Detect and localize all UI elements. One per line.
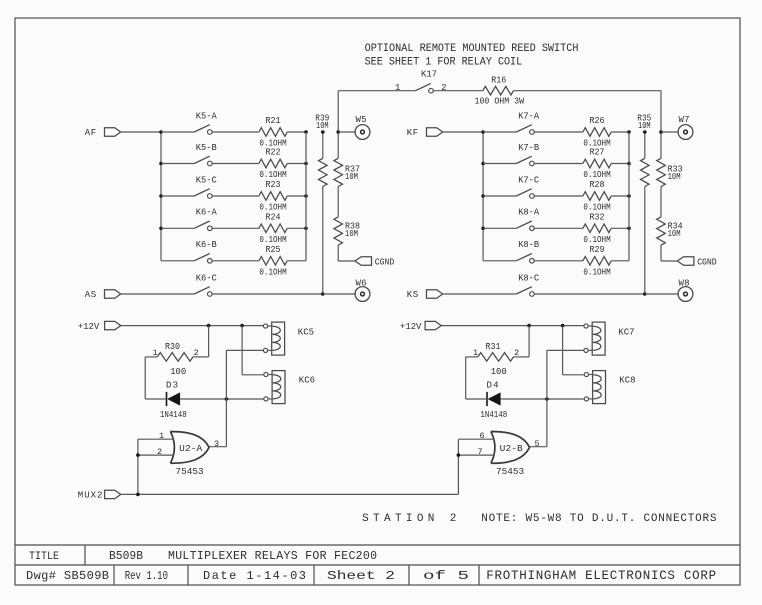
input tag AS	[85, 290, 121, 300]
junction dot input2	[136, 453, 140, 457]
wire row4 bus to switch	[161, 227, 194, 229]
wire row1 bus to switch	[483, 131, 516, 133]
svg-text:Sheet 2: Sheet 2	[327, 569, 395, 583]
wire R16 to right vertical	[514, 90, 662, 92]
ground tag CGND	[355, 257, 394, 268]
wire gate input 2	[458, 454, 494, 456]
wire switch to resistor row4	[535, 227, 583, 229]
wire bus to diode	[145, 398, 166, 400]
resistor R38	[334, 187, 360, 246]
svg-text:W7: W7	[679, 115, 690, 125]
svg-text:K5-A: K5-A	[196, 111, 218, 121]
switch K8-C	[516, 273, 539, 296]
wire R30 left bus down	[145, 356, 157, 358]
power tag +12V	[105, 321, 121, 329]
wire R31 left bus down	[466, 356, 478, 358]
svg-text:75453: 75453	[176, 466, 204, 477]
input tag KF	[407, 128, 443, 138]
svg-text:+12V: +12V	[400, 322, 422, 332]
svg-text:R21: R21	[266, 116, 281, 126]
connector W8	[678, 279, 693, 302]
wire KC5 bottom to vertical	[226, 349, 263, 351]
relay coil KC8	[584, 371, 635, 404]
svg-text:KF: KF	[407, 128, 419, 138]
svg-text:0.1OHM: 0.1OHM	[583, 170, 610, 180]
svg-text:CGND: CGND	[375, 257, 395, 267]
switch K7-A	[516, 111, 539, 134]
switch K8-A	[516, 208, 539, 231]
wire switch to resistor row3	[212, 195, 259, 197]
wire row4 bus to switch	[483, 227, 516, 229]
wire row3 bus to switch	[483, 195, 516, 197]
svg-text:KC7: KC7	[618, 327, 634, 337]
svg-text:K6-B: K6-B	[196, 240, 218, 250]
svg-text:10M: 10M	[345, 172, 358, 182]
svg-text:5: 5	[535, 439, 540, 449]
svg-text:R30: R30	[165, 342, 180, 352]
wire row1 to W7	[661, 131, 678, 133]
wire resistor to bus2 row4	[287, 227, 306, 229]
wire row1 bus to switch	[161, 131, 194, 133]
svg-text:R24: R24	[266, 213, 281, 223]
resistor R26	[583, 116, 611, 136]
wire row1 to W5	[338, 131, 355, 133]
svg-text:STATION 2: STATION 2	[362, 513, 456, 525]
svg-text:10M: 10M	[638, 121, 651, 131]
svg-text:10M: 10M	[316, 121, 329, 131]
wire resistor to bus2 row3	[611, 195, 629, 197]
junction dot bus1 row1	[159, 130, 163, 134]
svg-text:CGND: CGND	[697, 257, 717, 267]
wire R31 right to rail	[514, 356, 530, 358]
junction dot R39 top	[321, 130, 325, 134]
junction dot diode row	[225, 397, 229, 401]
junction dot bus2 row2	[627, 162, 631, 166]
wire resistor to bus2 row4	[611, 227, 629, 229]
svg-text:W8: W8	[679, 279, 690, 289]
switch K5-C	[194, 175, 217, 198]
svg-text:U2-A: U2-A	[179, 443, 202, 454]
svg-text:K6-A: K6-A	[196, 208, 218, 218]
wire KC8 top feed	[562, 326, 564, 375]
connector W7	[678, 115, 693, 139]
connector W5	[355, 115, 370, 139]
wire gate output	[209, 446, 226, 448]
junction dot bus2 row1	[627, 130, 631, 134]
wire KF to bus	[443, 131, 483, 133]
wire gate output	[530, 446, 547, 448]
svg-text:R25: R25	[266, 245, 281, 255]
svg-text:2: 2	[441, 83, 446, 93]
svg-text:R29: R29	[590, 245, 605, 255]
wire K17 row left	[338, 90, 415, 92]
wire bus to diode	[466, 398, 487, 400]
wire row5 bus to switch	[161, 260, 194, 262]
wire MUX2 row	[121, 493, 459, 495]
wire switch to resistor row3	[535, 195, 583, 197]
wire gate input 1	[458, 438, 494, 440]
relay coil KC7	[584, 322, 635, 355]
resistor R30	[157, 342, 193, 361]
svg-text:0.1OHM: 0.1OHM	[259, 268, 286, 278]
input tag MUX2	[105, 490, 121, 498]
svg-text:KC5: KC5	[298, 327, 314, 337]
svg-text:K8-C: K8-C	[518, 273, 540, 283]
junction dot input2	[457, 453, 461, 457]
resistor R32	[583, 213, 611, 233]
svg-text:AS: AS	[85, 290, 97, 300]
wire switch to resistor row1	[212, 131, 259, 133]
svg-text:D4: D4	[487, 381, 499, 391]
svg-text:K5-B: K5-B	[196, 143, 218, 153]
resistor R23	[259, 180, 287, 200]
svg-text:Date 1-14-03: Date 1-14-03	[203, 569, 306, 583]
wire row6 switch to W6 segment	[212, 293, 322, 295]
junction dot bus1 row1	[481, 130, 485, 134]
svg-text:R31: R31	[486, 342, 501, 352]
left bus vertical	[482, 132, 484, 261]
wire gate input 1	[138, 438, 174, 440]
switch K7-C	[516, 175, 539, 198]
junction dot rail r30	[207, 324, 211, 328]
title block lines	[15, 544, 740, 546]
input bus vertical	[137, 439, 139, 494]
junction dot bus2 row4	[304, 227, 308, 231]
input bus vertical	[457, 439, 459, 494]
resistor R35 vertical body	[637, 114, 651, 294]
junction dot R35 top	[643, 130, 647, 134]
svg-text:K7-C: K7-C	[518, 175, 540, 185]
resistor R39 vertical body	[315, 114, 329, 294]
wire switch to resistor row2	[212, 163, 259, 165]
resistor R16	[483, 75, 514, 95]
svg-text:100: 100	[491, 367, 507, 377]
junction dot bus1 row2	[159, 162, 163, 166]
svg-text:1N4148: 1N4148	[480, 410, 507, 420]
svg-text:SEE SHEET 1 FOR RELAY COIL: SEE SHEET 1 FOR RELAY COIL	[365, 56, 523, 68]
svg-text:K7-B: K7-B	[518, 143, 540, 153]
wire KC7 bottom to vertical	[547, 349, 584, 351]
wire +12V rail	[121, 325, 264, 327]
resistor R31	[478, 342, 514, 361]
svg-text:0.1OHM: 0.1OHM	[583, 235, 610, 245]
junction dot bus2 row3	[627, 194, 631, 198]
junction dot bus1 row4	[481, 227, 485, 231]
wire AF to bus	[121, 131, 161, 133]
svg-text:AF: AF	[85, 128, 97, 138]
resistor R37	[334, 132, 360, 187]
svg-text:0.1OHM: 0.1OHM	[259, 170, 286, 180]
svg-text:R32: R32	[590, 213, 605, 223]
svg-text:KC6: KC6	[299, 376, 315, 386]
input tag KS	[407, 290, 443, 300]
svg-text:R27: R27	[590, 148, 605, 158]
switch K8-B	[516, 240, 539, 263]
junction dot bus2 row1	[304, 130, 308, 134]
wire KC6 top feed	[241, 326, 243, 375]
svg-text:W5: W5	[356, 115, 367, 125]
switch K6-A	[194, 208, 217, 231]
junction dot R39 bottom	[321, 292, 325, 296]
resistor R24	[259, 213, 287, 233]
gate U2-B (75453 driver)	[491, 432, 530, 464]
svg-text:75453: 75453	[496, 466, 524, 477]
svg-text:NOTE: W5-W8 TO D.U.T. CONNECTO: NOTE: W5-W8 TO D.U.T. CONNECTORS	[481, 513, 717, 525]
svg-text:R16: R16	[491, 75, 506, 85]
svg-text:Dwg# SB509B: Dwg# SB509B	[26, 569, 109, 583]
svg-text:KS: KS	[407, 290, 419, 300]
wire resistor to bus2 row2	[611, 163, 629, 165]
switch K5-A	[194, 111, 217, 134]
wire switch to resistor row2	[535, 163, 583, 165]
switch K6-B	[194, 240, 217, 263]
wire row2 bus to switch	[161, 163, 194, 165]
svg-text:1: 1	[159, 431, 164, 441]
junction dot bus2 row3	[304, 194, 308, 198]
svg-text:+12V: +12V	[78, 322, 100, 332]
wire resistor to bus2 row1	[287, 131, 306, 133]
svg-text:6: 6	[479, 431, 484, 441]
relay coil KC5	[263, 322, 314, 355]
svg-text:100: 100	[170, 367, 186, 377]
wire row6 to W8	[645, 293, 678, 295]
junction dot bus1 row2	[481, 162, 485, 166]
svg-text:FROTHINGHAM ELECTRONICS CORP: FROTHINGHAM ELECTRONICS CORP	[486, 569, 716, 583]
resistor R34	[657, 187, 683, 246]
svg-text:10M: 10M	[345, 229, 358, 239]
resistor R33	[657, 132, 683, 187]
resistor R27	[583, 148, 611, 168]
junction dot rail kc6	[561, 324, 565, 328]
svg-text:D3: D3	[166, 381, 178, 391]
junction dot bus1 row3	[481, 194, 485, 198]
junction dot bus2 row4	[627, 227, 631, 231]
junction dot bus1 row3	[159, 194, 163, 198]
svg-text:K8-A: K8-A	[518, 208, 540, 218]
junction dot rail kc6	[240, 324, 244, 328]
svg-text:0.1OHM: 0.1OHM	[583, 268, 610, 278]
wire resistor to bus2 row5	[287, 260, 306, 262]
right bus vertical	[628, 132, 630, 261]
wire diode to kc6 terminal	[180, 398, 263, 400]
junction dot diode row	[545, 397, 549, 401]
junction dot rail r30	[527, 324, 531, 328]
svg-text:1N4148: 1N4148	[160, 410, 187, 420]
wire K17 to R16	[433, 90, 482, 92]
svg-text:R28: R28	[590, 180, 605, 190]
wire row3 bus to switch	[161, 195, 194, 197]
svg-text:B509B: B509B	[109, 550, 143, 563]
junction dot R37 top	[336, 130, 340, 134]
switch K6-C	[194, 273, 217, 296]
wire K17 left vertical	[337, 91, 339, 132]
svg-text:K6-C: K6-C	[196, 273, 218, 283]
resistor R29	[583, 245, 611, 265]
wire R34 to CGND	[660, 245, 662, 261]
wire row5 bus to switch	[483, 260, 516, 262]
svg-text:MULTIPLEXER RELAYS FOR FEC200: MULTIPLEXER RELAYS FOR FEC200	[168, 550, 377, 563]
resistor R28	[583, 180, 611, 200]
wire switch to resistor row1	[535, 131, 583, 133]
svg-text:KC8: KC8	[619, 376, 635, 386]
svg-text:TITLE: TITLE	[29, 551, 59, 563]
resistor R25	[259, 245, 287, 265]
wire row6 to W6	[323, 293, 355, 295]
wire R38 to CGND	[337, 245, 339, 261]
junction dot bus1 row4	[159, 227, 163, 231]
svg-text:10M: 10M	[668, 172, 681, 182]
svg-text:3: 3	[214, 439, 219, 449]
svg-text:7: 7	[478, 447, 483, 457]
power tag +12V	[425, 321, 441, 329]
gate U2-A (75453 driver)	[170, 432, 209, 464]
input tag AF	[85, 128, 121, 138]
diode D4	[487, 381, 501, 407]
wire KS to switch	[443, 293, 517, 295]
svg-text:OPTIONAL REMOTE MOUNTED REED S: OPTIONAL REMOTE MOUNTED REED SWITCH	[365, 43, 579, 55]
svg-text:0.1OHM: 0.1OHM	[259, 235, 286, 245]
svg-text:K8-B: K8-B	[518, 240, 540, 250]
svg-text:10M: 10M	[668, 229, 681, 239]
switch K5-B	[194, 143, 217, 166]
wire switch to resistor row5	[212, 260, 259, 262]
svg-text:K17: K17	[421, 70, 437, 80]
wire gate input 2	[138, 454, 174, 456]
junction dot R35 bottom	[643, 292, 647, 296]
wire resistor to bus2 row5	[611, 260, 629, 262]
switch K7-B	[516, 143, 539, 166]
wire switch to resistor row4	[212, 227, 259, 229]
wire resistor to bus2 row1	[611, 131, 629, 133]
svg-text:MUX2: MUX2	[78, 491, 103, 501]
svg-text:R26: R26	[590, 116, 605, 126]
junction dot bus2 row2	[304, 162, 308, 166]
svg-text:0.1OHM: 0.1OHM	[583, 203, 610, 213]
wire row2 bus to switch	[483, 163, 516, 165]
svg-text:K5-C: K5-C	[196, 175, 218, 185]
resistor R22	[259, 148, 287, 168]
diode D3	[166, 381, 180, 407]
svg-text:R22: R22	[266, 148, 281, 158]
wire R30 right to rail	[193, 356, 209, 358]
connector W6	[355, 279, 370, 302]
svg-text:0.1OHM: 0.1OHM	[259, 203, 286, 213]
wire switch to resistor row5	[535, 260, 583, 262]
junction dot R33 top	[659, 130, 663, 134]
svg-text:Rev 1.10: Rev 1.10	[125, 569, 168, 583]
wire K17 right vertical	[660, 91, 662, 132]
svg-text:of 5: of 5	[423, 569, 469, 583]
wire diode to kc6 terminal	[501, 398, 584, 400]
svg-text:U2-B: U2-B	[500, 443, 523, 454]
left bus vertical	[160, 132, 162, 261]
wire resistor to bus2 row3	[287, 195, 306, 197]
resistor R21	[259, 116, 287, 136]
svg-text:2: 2	[157, 447, 162, 457]
wire +12V rail	[441, 325, 584, 327]
right bus vertical	[305, 132, 307, 261]
svg-text:K7-A: K7-A	[518, 111, 540, 121]
svg-text:R23: R23	[266, 180, 281, 190]
svg-text:100 OHM 3W: 100 OHM 3W	[475, 97, 525, 107]
svg-text:1: 1	[395, 83, 400, 93]
relay coil KC6	[264, 371, 315, 404]
wire row6 switch to W8 segment	[535, 293, 645, 295]
reed switch K17	[415, 70, 437, 93]
ground tag CGND	[677, 257, 716, 268]
wire AS to switch	[121, 293, 195, 295]
svg-text:W6: W6	[356, 279, 367, 289]
junction dot MUX2	[136, 493, 140, 497]
wire resistor to bus2 row2	[287, 163, 306, 165]
